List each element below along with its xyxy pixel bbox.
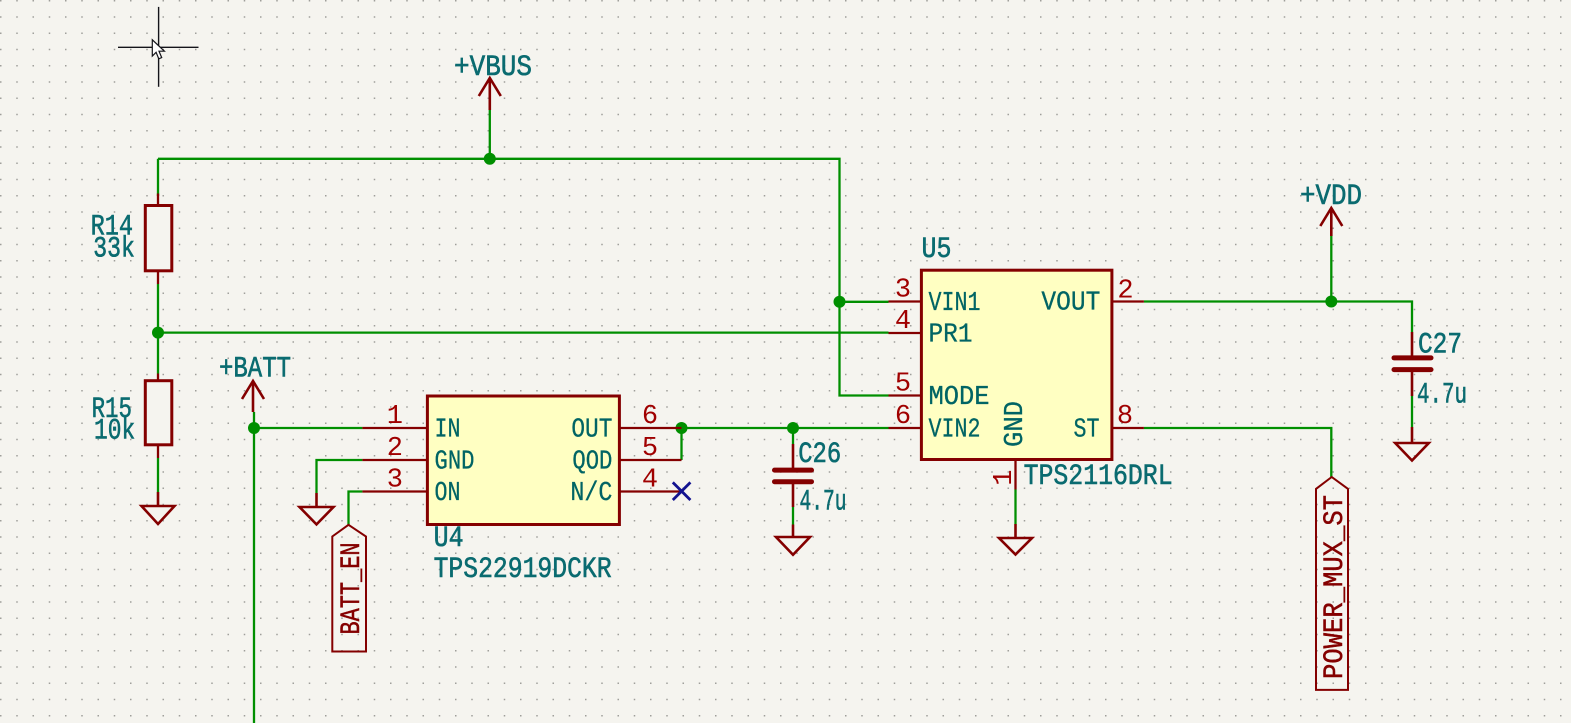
wire VDD stem bbox=[1330, 236, 1332, 302]
wire VBUS stem bbox=[489, 110, 491, 159]
pin 5 QOD bbox=[619, 459, 681, 461]
pin 3 ON bbox=[362, 490, 427, 492]
svg-text:PR1: PR1 bbox=[929, 321, 973, 351]
pin 5 MODE bbox=[889, 394, 922, 396]
svg-text:U4: U4 bbox=[434, 522, 464, 556]
ground under C26 bbox=[776, 525, 810, 555]
pin 1 GND bottom bbox=[1014, 460, 1016, 490]
pin 6 OUT bbox=[619, 427, 681, 429]
svg-text:4: 4 bbox=[895, 307, 911, 337]
junction BATT-IN bbox=[248, 422, 260, 434]
ground under U5 GND bbox=[999, 524, 1032, 555]
svg-text:QOD: QOD bbox=[572, 448, 612, 478]
U4 TPS22919DCKR bbox=[362, 396, 681, 587]
resistor R14 bbox=[91, 194, 172, 285]
wire U4 GND to ground bbox=[317, 460, 363, 493]
junction VBUS bbox=[484, 153, 496, 165]
wire QOD drop bbox=[680, 428, 682, 460]
svg-text:33k: 33k bbox=[93, 232, 135, 266]
U5 TPS2116DRL bbox=[889, 233, 1173, 494]
wire C26 bottom bbox=[792, 507, 794, 525]
svg-text:10k: 10k bbox=[94, 415, 135, 449]
pin 2 GND bbox=[362, 459, 427, 461]
+BATT arrow symbol bbox=[242, 381, 264, 412]
power +VDD bbox=[1300, 180, 1362, 236]
svg-text:1: 1 bbox=[990, 470, 1020, 486]
global label BATT_EN bbox=[332, 525, 368, 652]
capacitor C26 bbox=[775, 438, 847, 520]
svg-text:2: 2 bbox=[1117, 277, 1133, 307]
junction R14-R15 bbox=[152, 327, 164, 339]
svg-text:+VBUS: +VBUS bbox=[454, 51, 532, 85]
pin 4 PR1 bbox=[889, 332, 922, 334]
svg-text:GND: GND bbox=[1001, 401, 1031, 447]
pin 4 N/C bbox=[619, 490, 681, 492]
wire C27 bottom bbox=[1411, 396, 1413, 427]
svg-text:VIN2: VIN2 bbox=[929, 416, 981, 446]
wire top VBUS rail bbox=[158, 159, 889, 396]
cursor crosshair bbox=[118, 7, 199, 87]
svg-text:BATT_EN: BATT_EN bbox=[337, 543, 368, 635]
junction C26 bbox=[787, 422, 799, 434]
svg-text:OUT: OUT bbox=[571, 416, 612, 446]
wire BATT vertical bbox=[253, 412, 255, 723]
wire ST to label bbox=[1144, 428, 1331, 477]
svg-text:5: 5 bbox=[895, 370, 911, 400]
svg-text:VIN1: VIN1 bbox=[929, 289, 981, 319]
capacitor C27 bbox=[1394, 329, 1467, 413]
wire R14 top bbox=[157, 159, 159, 196]
wire VIN1 stub bbox=[840, 301, 889, 303]
svg-text:4.7u: 4.7u bbox=[800, 486, 847, 520]
pin 3 VIN1 bbox=[889, 300, 922, 302]
ground under R15 bbox=[142, 492, 175, 524]
+VDD arrow symbol bbox=[1320, 208, 1342, 236]
wire BATT to IN bbox=[254, 427, 362, 429]
junction OUT-QOD bbox=[676, 422, 688, 434]
pin 1 IN bbox=[362, 427, 427, 429]
junction VDD bbox=[1325, 296, 1337, 308]
svg-text:8: 8 bbox=[1117, 402, 1133, 432]
svg-text:MODE: MODE bbox=[929, 383, 990, 413]
svg-text:POWER_MUX_ST: POWER_MUX_ST bbox=[1320, 495, 1351, 679]
wire VOUT to C27 bbox=[1144, 302, 1412, 333]
wire R15 top bbox=[157, 333, 159, 374]
svg-text:1: 1 bbox=[387, 402, 403, 432]
pin 6 VIN2 bbox=[889, 427, 922, 429]
wire OUT to VIN2 bbox=[682, 427, 889, 429]
svg-text:6: 6 bbox=[642, 402, 658, 432]
svg-text:C26: C26 bbox=[798, 438, 841, 472]
wire C26 top bbox=[792, 428, 794, 444]
svg-text:4.7u: 4.7u bbox=[1417, 379, 1467, 413]
svg-text:C27: C27 bbox=[1418, 329, 1462, 363]
svg-text:N/C: N/C bbox=[570, 479, 612, 509]
svg-text:4: 4 bbox=[642, 466, 658, 496]
svg-text:U5: U5 bbox=[922, 233, 952, 267]
svg-text:6: 6 bbox=[895, 402, 911, 432]
wire U4 ON to BATT_EN bbox=[349, 492, 363, 526]
wire PR1 row bbox=[158, 331, 889, 333]
global label POWER_MUX_ST bbox=[1316, 477, 1351, 690]
power +VBUS bbox=[454, 51, 532, 110]
power +BATT bbox=[219, 353, 291, 413]
ground under U4 GND bbox=[300, 493, 334, 524]
junction VIN1 bbox=[834, 296, 846, 308]
ground under C27 bbox=[1395, 427, 1429, 461]
svg-text:VOUT: VOUT bbox=[1041, 289, 1100, 319]
wire R14 bottom bbox=[157, 284, 159, 333]
svg-text:2: 2 bbox=[387, 434, 403, 464]
svg-text:3: 3 bbox=[387, 466, 403, 496]
resistor R15 bbox=[92, 374, 172, 459]
svg-text:ST: ST bbox=[1074, 416, 1100, 446]
wire R15 bottom bbox=[157, 458, 159, 492]
svg-text:TPS2116DRL: TPS2116DRL bbox=[1024, 460, 1173, 494]
pin 2 VOUT bbox=[1112, 300, 1144, 302]
+VBUS arrow symbol bbox=[479, 78, 501, 110]
pin 8 ST bbox=[1112, 427, 1144, 429]
svg-text:5: 5 bbox=[642, 434, 658, 464]
svg-text:3: 3 bbox=[895, 276, 911, 306]
svg-text:TPS22919DCKR: TPS22919DCKR bbox=[434, 553, 612, 587]
svg-text:ON: ON bbox=[435, 479, 461, 509]
no-connect X on pin 4 bbox=[673, 482, 691, 500]
svg-text:IN: IN bbox=[435, 416, 461, 446]
svg-text:GND: GND bbox=[435, 448, 475, 478]
wire U5 GND bottom bbox=[1014, 490, 1016, 525]
svg-text:+BATT: +BATT bbox=[219, 353, 291, 387]
